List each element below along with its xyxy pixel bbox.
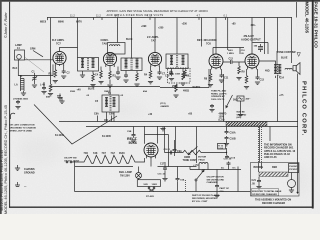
svg-text:L-45: L-45 (40, 83, 46, 86)
svg-text:R4-5: R4-5 (228, 49, 234, 52)
svg-text:7A7: 7A7 (151, 39, 156, 43)
svg-text:+85: +85 (279, 93, 284, 97)
svg-text:C12: C12 (229, 58, 234, 61)
svg-text:C9A: C9A (177, 150, 182, 153)
svg-text:40Ω: 40Ω (265, 70, 270, 73)
svg-text:MODEL 46-1205: MODEL 46-1205 (305, 2, 310, 34)
svg-text:100% VOLTS: 100% VOLTS (211, 99, 225, 101)
svg-text:+090: +090 (141, 25, 147, 28)
svg-text:BLUE: BLUE (88, 88, 95, 91)
svg-text:PART OF PHONO PLAYER: PART OF PHONO PLAYER (192, 194, 220, 197)
svg-text:6BF: 6BF (57, 96, 62, 98)
svg-text:(C13): (C13) (160, 103, 166, 105)
svg-text:45A: 45A (143, 90, 147, 93)
svg-text:35A5: 35A5 (119, 152, 125, 155)
svg-text:+250: +250 (158, 26, 164, 29)
svg-text:400Ω: 400Ω (183, 90, 189, 93)
svg-text:400~: 400~ (251, 24, 257, 27)
svg-text:PAGE 19-31 PHILCO: PAGE 19-31 PHILCO (312, 2, 318, 49)
svg-text:RECORDER, MOUNTED: RECORDER, MOUNTED (192, 198, 217, 200)
svg-text:C9B: C9B (127, 131, 132, 133)
svg-text:45B: 45B (46, 96, 50, 99)
svg-text:C13: C13 (260, 79, 265, 82)
svg-text:R-F AMPL: R-F AMPL (52, 38, 65, 42)
svg-text:APPROX. GAIN PER STAGE SIGNAL: APPROX. GAIN PER STAGE SIGNAL MEASURED W… (107, 9, 209, 13)
svg-text:7C6: 7C6 (206, 42, 211, 46)
svg-text:100K: 100K (175, 74, 181, 76)
svg-text:C16A: C16A (230, 132, 236, 135)
svg-text:PHILCO CORP.: PHILCO CORP. (301, 81, 307, 137)
svg-text:ON-OFF MOTOR: ON-OFF MOTOR (207, 177, 225, 179)
svg-text:7C7: 7C7 (56, 42, 61, 46)
svg-text:7A8: 7A8 (102, 42, 107, 46)
svg-text:2-F AMPL: 2-F AMPL (147, 35, 159, 39)
svg-text:WHEN LOOP IS USED: WHEN LOOP IS USED (9, 131, 32, 133)
svg-text:TUBE PIL AND: TUBE PIL AND (211, 90, 227, 93)
svg-text:BLUE: BLUE (126, 38, 133, 41)
svg-text:C17: C17 (160, 163, 165, 166)
svg-text:68H6: 68H6 (58, 21, 64, 24)
svg-text:EXT. ANT. CONNECTION: EXT. ANT. CONNECTION (9, 124, 35, 127)
svg-text:0.2A: 0.2A (218, 147, 223, 150)
svg-text:DET. 400 AUDIO: DET. 400 AUDIO (197, 38, 217, 42)
svg-text:(AC): (AC) (237, 116, 242, 119)
svg-text:C18 .1: C18 .1 (164, 149, 171, 151)
svg-text:RECORD CHANGER: RECORD CHANGER (262, 202, 285, 205)
svg-text:141: 141 (115, 14, 120, 18)
svg-text:ON-OFF SW: ON-OFF SW (64, 158, 77, 160)
svg-text:7A7: 7A7 (111, 152, 116, 155)
svg-text:MOTOR: MOTOR (198, 157, 207, 159)
svg-text:BLUE: BLUE (281, 57, 288, 60)
svg-text:J70/1: J70/1 (13, 99, 19, 101)
svg-text:1 MEG: 1 MEG (227, 53, 234, 55)
svg-text:FIELD: FIELD (199, 159, 206, 161)
svg-text:©John F. Rider: ©John F. Rider (3, 12, 8, 38)
svg-text:120Ω: 120Ω (152, 184, 158, 186)
svg-text:+40: +40 (148, 113, 153, 116)
svg-text:0.1: 0.1 (224, 14, 228, 18)
svg-text:DC: DC (233, 168, 237, 170)
svg-text:6AT6: 6AT6 (76, 21, 82, 24)
svg-text:C16B: C16B (230, 138, 236, 141)
svg-text:11.2: 11.2 (96, 14, 101, 18)
svg-text:7C7: 7C7 (102, 152, 107, 155)
svg-text:+250: +250 (182, 22, 188, 25)
svg-text:(C16): (C16) (219, 119, 225, 122)
svg-text:TONE CONT SW: TONE CONT SW (277, 51, 296, 54)
svg-text:C11: C11 (224, 77, 229, 80)
svg-text:4.7: 4.7 (197, 14, 201, 18)
svg-text:.004MFD: .004MFD (160, 105, 169, 108)
svg-text:+85: +85 (188, 113, 193, 116)
svg-text:AUDIO OUTPUT: AUDIO OUTPUT (241, 38, 261, 42)
svg-text:64-1035: 64-1035 (102, 135, 111, 138)
svg-text:45B 200Ω: 45B 200Ω (18, 98, 28, 101)
svg-text:TONE CONT: TONE CONT (183, 159, 198, 162)
svg-text:7A8: 7A8 (93, 152, 98, 155)
svg-text:PANEL LAMPS: PANEL LAMPS (211, 92, 227, 95)
svg-text:OF RECORD CHANGER: OF RECORD CHANGER (252, 193, 277, 196)
svg-text:C14: C14 (280, 77, 285, 80)
svg-text:50Ω: 50Ω (144, 184, 148, 186)
svg-text:GROUND: GROUND (24, 171, 35, 174)
svg-text:GROUNDED TO CHASSIS: GROUNDED TO CHASSIS (9, 127, 36, 130)
svg-text:AND 15-46: AND 15-46 (264, 156, 277, 159)
svg-text:50X6: 50X6 (129, 141, 137, 145)
svg-text:11.2: 11.2 (70, 14, 75, 18)
svg-text:BLK: BLK (13, 67, 18, 70)
svg-text:SW ON RECORD: SW ON RECORD (207, 179, 225, 181)
svg-text:CHANGER: CHANGER (207, 181, 218, 184)
svg-text:64-1035: 64-1035 (55, 134, 64, 137)
svg-text:+40: +40 (77, 89, 82, 92)
svg-text:MOUNTED TO METAL BASE: MOUNTED TO METAL BASE (252, 190, 282, 193)
svg-text:CONV.: CONV. (101, 38, 109, 42)
svg-text:GRN: GRN (30, 48, 36, 51)
svg-text:MAY BE: MAY BE (237, 111, 246, 114)
svg-text:C19 .05: C19 .05 (224, 159, 232, 161)
svg-text:4.75: 4.75 (147, 14, 153, 18)
svg-text:GROUND: GROUND (237, 114, 247, 116)
svg-text:BY VOL. CONT: BY VOL. CONT (192, 201, 208, 203)
svg-text:C16 .05: C16 .05 (158, 174, 166, 176)
svg-text:35L6-GT: 35L6-GT (244, 34, 255, 38)
svg-text:7C6: 7C6 (84, 152, 89, 155)
svg-text:250K: 250K (70, 91, 76, 93)
svg-text:RED: RED (272, 166, 277, 169)
svg-text:RT 40Ω: RT 40Ω (146, 195, 154, 198)
svg-text:PART OF: PART OF (220, 187, 230, 190)
svg-text:AC: AC (221, 167, 225, 170)
svg-text:6BC6: 6BC6 (40, 21, 47, 24)
svg-text:C9A: C9A (180, 179, 185, 182)
svg-text:7W 120V: 7W 120V (120, 174, 130, 177)
svg-text:46-1205, Philco 46-1205, Philc: 46-1205, Philco 46-1205, Philco P-15-45 (0, 150, 4, 211)
svg-text:ON VOL CONT: ON VOL CONT (64, 160, 80, 162)
svg-text:+150: +150 (193, 163, 199, 167)
svg-text:+85: +85 (232, 22, 237, 25)
svg-text:LA: LA (15, 83, 18, 86)
svg-text:MODEL 46-1205, Philco 46-1205,: MODEL 46-1205, Philco 46-1205, RECORD CH… (4, 105, 8, 214)
